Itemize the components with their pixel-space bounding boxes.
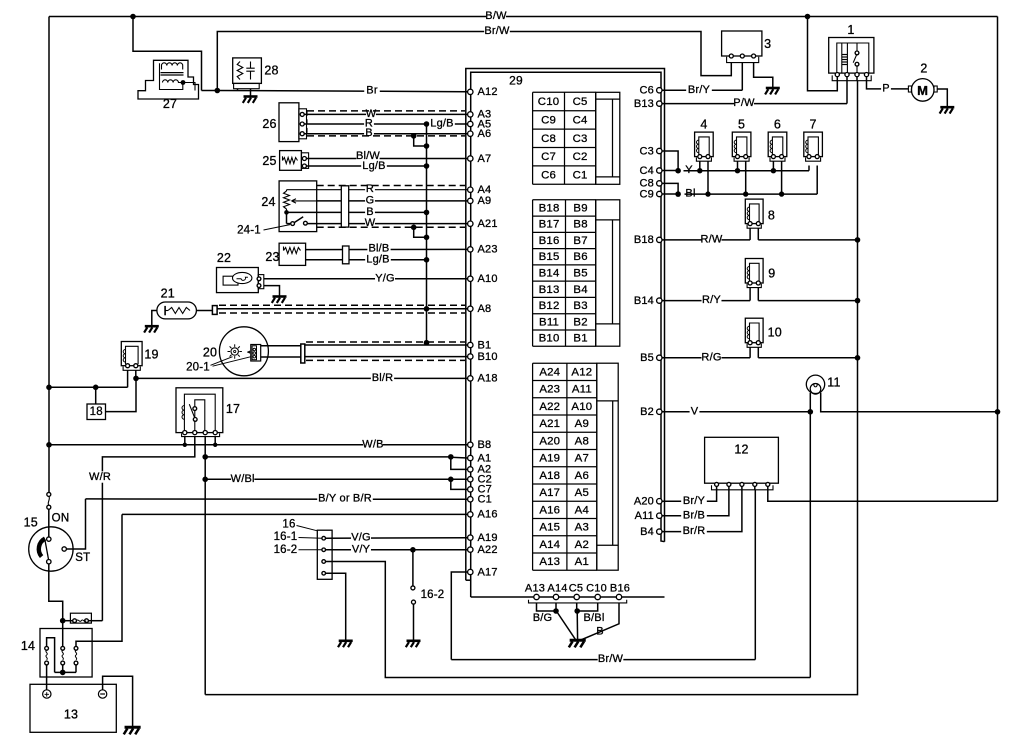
wire C5 down [576, 603, 578, 611]
solenoid/relay component 10 [745, 318, 763, 343]
wire injector 5 left pin to Y line [737, 161, 739, 170]
label P/W [734, 97, 754, 108]
node +B junction at A1/A2 line [202, 454, 208, 460]
label Y [684, 164, 694, 175]
wire B16 to ground diagonal [581, 603, 619, 640]
node shield tap on dashed below B [411, 133, 417, 139]
lamp 11 left leg down through V line [809, 393, 811, 678]
node bus junction at 24 B wire [424, 210, 430, 216]
svg-text:A12: A12 [571, 366, 592, 378]
relay 1 bracket [832, 75, 871, 80]
svg-text:24-1: 24-1 [237, 225, 261, 237]
node junction R/G on +B vertical [855, 355, 861, 361]
svg-text:A23: A23 [478, 244, 498, 256]
battery - terminal [98, 690, 106, 698]
ECU connector block 29 inner border [471, 72, 665, 597]
fusible link holder box [70, 613, 91, 623]
wire W/Bl line to C2 [205, 478, 467, 480]
wire battery - to ground [103, 676, 133, 727]
ECU bottom pin circles [534, 594, 539, 599]
lamp 11 outer circle [806, 375, 824, 393]
wire 17 pin4 to W/B [214, 437, 216, 445]
component 18 box [87, 404, 106, 420]
svg-text:C1: C1 [573, 170, 588, 182]
svg-text:13: 13 [64, 708, 78, 722]
node junction on top B/W line at x=133 [130, 14, 136, 20]
svg-text:P: P [882, 83, 890, 95]
wire R/W from ECU to component 8 [662, 239, 750, 241]
svg-text:B9: B9 [573, 202, 587, 214]
svg-text:26: 26 [262, 117, 276, 131]
wire right fuse bottom [75, 665, 77, 673]
component 12 bracket [712, 485, 774, 490]
component 21 capsule body [157, 302, 197, 319]
svg-text:A3: A3 [575, 522, 589, 534]
svg-text:A4: A4 [478, 184, 492, 196]
wire 17 pin1 to W/B [184, 437, 186, 445]
ECU table B shorting-bar column [596, 200, 620, 346]
wire B/W feed to relay 1 pin1 [808, 17, 838, 91]
svg-text:W/Bl: W/Bl [231, 473, 255, 485]
label Br/Y [686, 84, 712, 95]
svg-text:Br: Br [366, 85, 378, 97]
wire Br/W bottom line [451, 659, 755, 661]
label V/Y [351, 544, 371, 555]
relay 17 inner frame [184, 394, 215, 432]
wire comp12 pin5 to right border [768, 486, 998, 501]
svg-text:C4: C4 [640, 165, 654, 177]
lamp 11 right leg to right border [821, 393, 998, 412]
component 3 pins [729, 54, 733, 58]
wire right fuse top to A16 line [76, 514, 122, 646]
svg-text:11: 11 [827, 376, 840, 390]
wire V/G from 16 to A19 [326, 537, 468, 539]
wire comp3 mid pin to Br/Y [741, 63, 743, 91]
svg-text:ST: ST [75, 552, 90, 564]
svg-text:Lg/B: Lg/B [362, 160, 385, 172]
svg-text:C5: C5 [573, 96, 588, 108]
svg-text:B16: B16 [539, 235, 560, 247]
svg-text:27: 27 [163, 97, 177, 111]
node shield tap below W [411, 225, 417, 231]
wire Br/W top: from x=217 to comp 3 left pin [217, 32, 731, 91]
ignition coil 27 body [138, 60, 199, 99]
svg-text:A5: A5 [575, 487, 589, 499]
wire Bl/W from 25 to A7 [306, 158, 467, 160]
shield dashed above R wire of 24 [317, 185, 465, 187]
svg-text:C6: C6 [640, 85, 654, 97]
relay 17 switch contacts [193, 407, 197, 411]
inline connector circles on left border wire [47, 492, 51, 496]
ignition switch ST contact [62, 547, 66, 551]
svg-text:10: 10 [768, 326, 782, 340]
fuse elements in 14 [45, 646, 49, 650]
wire B/Y or B/R to C1 [86, 498, 468, 500]
shield dashed above B1 wire [306, 341, 465, 343]
relay 1 inner frame [837, 43, 869, 73]
component 24 wiper arrow [292, 199, 317, 203]
component 12 box [705, 437, 779, 483]
svg-text:Br/B: Br/B [683, 509, 705, 521]
node bus junction at 25 Lg/B [424, 163, 430, 169]
label W/R [90, 471, 110, 482]
wire Y line end up to injector 7 [808, 166, 810, 171]
svg-text:Lg/B: Lg/B [430, 118, 453, 130]
svg-text:B/Bl: B/Bl [584, 612, 605, 624]
svg-text:A21: A21 [478, 218, 498, 230]
label V/G [351, 532, 371, 543]
svg-text:21: 21 [161, 287, 175, 301]
node junction A1/A2 split [448, 454, 454, 460]
wire from B/W dot down to ignition coil 27 [133, 17, 202, 91]
component 22 box [217, 268, 259, 293]
label G [365, 195, 375, 206]
wire Lg/B from 23 to bus [306, 259, 427, 261]
node junction to component 18 [93, 385, 99, 391]
svg-text:W/R: W/R [89, 471, 111, 483]
component 3 bracket [727, 57, 759, 63]
svg-text:A20: A20 [539, 435, 560, 447]
svg-text:C3: C3 [640, 145, 654, 157]
wire A16 line [122, 513, 468, 515]
svg-text:25: 25 [262, 154, 276, 168]
wire 16 pin4 to ground [326, 573, 346, 640]
node bus junction at 26-shield drain [424, 143, 430, 149]
wire comp3 right pin to ground [754, 63, 773, 88]
ground under 21 [145, 325, 159, 328]
label B from 24 [365, 206, 375, 217]
wire component 10 to +B vertical [757, 347, 759, 358]
label W/Bl [231, 473, 254, 484]
ignition coil 27 primary winding [162, 63, 167, 66]
fusible link contacts [73, 619, 77, 623]
svg-text:5: 5 [738, 117, 745, 131]
wire ST to B/Y-or-B/R line [66, 499, 85, 549]
wire down to 16-2 switch [412, 550, 414, 586]
node junction 19/18 on Bl/R [133, 376, 139, 382]
ground ECU bottom [570, 639, 586, 642]
svg-text:16-1: 16-1 [274, 531, 298, 543]
ground comp3 [766, 87, 780, 90]
svg-text:B7: B7 [573, 235, 587, 247]
svg-text:Br/R: Br/R [683, 525, 706, 537]
wire C10 to join [577, 603, 598, 611]
wire injector 5 right pin to Bl line [745, 161, 747, 194]
svg-text:Br/Y: Br/Y [683, 495, 706, 507]
noise suppressor 28 box [233, 58, 262, 84]
node junction bottom bus [60, 670, 66, 676]
label Bl/B [367, 243, 390, 254]
component 21 internal resistor [168, 308, 190, 314]
wire bottom +B loop [205, 81, 857, 695]
ECU right pin circles and labels [657, 88, 662, 93]
component 24-1 switch contacts [286, 212, 288, 223]
svg-text:A2: A2 [575, 539, 589, 551]
svg-text:8: 8 [768, 209, 775, 223]
svg-text:B13: B13 [539, 284, 560, 296]
wire Y line from C3/C4 [662, 151, 678, 171]
wire W/B from left border to B8 [49, 444, 468, 446]
svg-text:A22: A22 [539, 401, 560, 413]
svg-text:B6: B6 [573, 251, 587, 263]
wire dot to fusible link [63, 620, 73, 622]
solenoid/relay component 9 [745, 259, 763, 284]
node coil 27 secondary junction [181, 80, 186, 85]
wire to A1 [451, 456, 468, 459]
ground under 16-2 [407, 639, 421, 642]
ECU table A shorting-bar column [597, 363, 618, 570]
node bus junction at 24 shield drain [424, 235, 430, 241]
svg-text:+: + [44, 689, 49, 699]
ignition coil 27 inner case [160, 63, 183, 89]
label P [881, 83, 891, 94]
wire coil 27 output to node at x=217 [202, 90, 218, 92]
svg-text:A12: A12 [478, 86, 498, 98]
wire left border vertical [48, 17, 50, 493]
wire 20 upper to connector [261, 345, 301, 347]
wire 28 left leg to Br node wire [237, 89, 239, 91]
connector 16 pins [322, 536, 326, 540]
svg-text:16: 16 [282, 519, 295, 531]
svg-text:A6: A6 [575, 470, 589, 482]
wire common contact down to relay block 14 [49, 564, 63, 621]
svg-text:R/W: R/W [701, 234, 723, 246]
wire V from B2 [662, 411, 810, 413]
relay 17 bracket [182, 433, 220, 436]
svg-text:1: 1 [847, 23, 854, 37]
component 14 outer box [40, 629, 92, 678]
svg-text:B13: B13 [634, 98, 654, 110]
svg-text:R/G: R/G [701, 351, 721, 363]
wire 21 to ECU pin A8 [217, 308, 468, 310]
svg-text:C10: C10 [538, 96, 560, 108]
inline connector on 24 wires [341, 186, 348, 227]
wire 16-2 to ground [413, 604, 415, 640]
wire left fuse bottom to battery + [46, 665, 48, 690]
svg-text:9: 9 [768, 267, 775, 281]
wire mid fuse bottom [62, 665, 64, 673]
svg-text:C7: C7 [541, 151, 556, 163]
label Bl [684, 188, 697, 199]
wire left fuse hook and inner vertical [47, 638, 55, 673]
wire W from switch to box edge [307, 223, 316, 225]
svg-text:20: 20 [203, 346, 217, 360]
wire A13/A14 to ground diagonal [556, 611, 576, 641]
component 25 box [280, 151, 302, 171]
wire 17 pin2 to W/R vertical [102, 437, 194, 621]
distributor 20 reluctor star [231, 348, 238, 355]
ignition switch common contact [47, 560, 51, 564]
svg-text:A11: A11 [572, 384, 592, 396]
svg-text:V: V [691, 405, 699, 417]
relay 1 outer box [829, 38, 874, 74]
battery 13 box [30, 684, 116, 732]
component 3 box [722, 31, 762, 56]
wire A17 to Br/W bottom line [451, 572, 467, 660]
component 26 connector stub [299, 109, 307, 139]
wire comp12 pin3 to B4 Br/R [662, 486, 742, 531]
node +B junction at W/Bl line [202, 477, 208, 483]
component 26 box [279, 103, 299, 142]
node junction R/W on +B vertical [855, 237, 861, 243]
solenoid/relay component 8 [745, 199, 763, 224]
label Lg/B from 23 [365, 254, 391, 265]
svg-text:A20: A20 [634, 496, 654, 508]
wire V/Y from 16 to A22 [326, 549, 468, 551]
ECU internal pin table B [533, 199, 596, 201]
svg-text:A10: A10 [571, 401, 592, 413]
svg-text:2: 2 [920, 62, 927, 76]
lamp 11 filament [810, 384, 821, 395]
relay 1 coil hatch [842, 54, 848, 56]
label B/Y or B/R [317, 493, 373, 504]
ignition coil 27 core lines [161, 72, 184, 74]
wire relay 1 pin2 to P/W [846, 77, 848, 104]
wire B from 26 to A6 [304, 133, 467, 135]
label Lg/B from 25 [361, 160, 387, 171]
shield dashed left vertical for 26 [306, 111, 308, 136]
wire step to A2 [451, 457, 468, 470]
wire B tap inside 24 [284, 210, 289, 215]
label R on wire [364, 118, 374, 129]
wire bottom bus of 14 [55, 671, 76, 673]
svg-text:B18: B18 [634, 234, 654, 246]
component 22 connector stub [258, 275, 264, 289]
svg-text:B4: B4 [573, 284, 587, 296]
distributor 20 circle [219, 327, 268, 376]
component 22 ellipse element [233, 272, 252, 283]
wire Lg/B from 25 to bus [306, 165, 426, 167]
svg-text:Bl/R: Bl/R [372, 372, 394, 384]
label Y/G [375, 273, 395, 284]
node junction on top B/W line at x=807.5 [805, 14, 811, 20]
wire injector 6 right pin to Bl line [781, 161, 783, 194]
svg-text:B14: B14 [539, 268, 560, 280]
svg-text:C4: C4 [573, 114, 588, 126]
svg-text:A11: A11 [635, 510, 654, 522]
noise suppressor 28 base [234, 83, 260, 88]
ignition coil 27 secondary winding [163, 80, 168, 83]
shield dashed above A8 wire [219, 304, 465, 306]
ignition switch lever [39, 539, 45, 557]
wire down to ON contact [48, 509, 50, 537]
svg-text:B/Y or B/R: B/Y or B/R [318, 492, 372, 504]
label W/B [363, 439, 383, 450]
svg-text:16-2: 16-2 [421, 589, 445, 601]
wire B from 24 to Lg/B bus [317, 211, 427, 213]
svg-text:A9: A9 [575, 418, 589, 430]
wire shield drain hook of 24 to bus [414, 227, 427, 237]
injector 4 [695, 132, 714, 157]
svg-text:B8: B8 [573, 219, 587, 231]
node junction W/Bl split to C7 [448, 477, 454, 483]
wire component 9 to +B vertical [757, 288, 759, 301]
wire Bl/B from 23 to A23 [306, 248, 468, 250]
label Br/R [681, 525, 707, 536]
svg-text:B3: B3 [573, 300, 587, 312]
svg-text:B/G: B/G [533, 612, 553, 624]
component 24 box [279, 181, 317, 232]
relay 17 pins [183, 431, 187, 435]
component 24 potentiometer resistor [284, 191, 290, 209]
svg-text:B4: B4 [640, 526, 654, 538]
wire fusible link to W/R vertical [88, 620, 102, 622]
svg-text:A24: A24 [539, 366, 560, 378]
svg-text:ON: ON [52, 513, 70, 525]
component 12 pins [715, 482, 719, 486]
inline connector on 23 wires [343, 246, 350, 264]
wire Bl/R from 19/18 to A18 [136, 377, 468, 379]
wire Br/Y from C6 [662, 89, 742, 91]
label V [690, 406, 700, 417]
wire A1/A2 feed line [205, 456, 451, 458]
svg-text:C5: C5 [569, 582, 583, 594]
svg-text:V/Y: V/Y [352, 543, 371, 555]
wire Bl line end up to injector 7 right pin [816, 166, 818, 195]
node junction left border W/B [46, 442, 52, 448]
label B on wire [364, 127, 374, 138]
svg-text:14: 14 [21, 639, 35, 653]
svg-text:B/W: B/W [485, 10, 507, 22]
svg-text:18: 18 [90, 406, 103, 418]
node junction at fusible link feed [60, 618, 66, 624]
node junction on left border at 387 [46, 385, 52, 391]
node bus junction at 23 Lg/B [424, 257, 430, 263]
wire component 8 to +B vertical [757, 228, 759, 240]
ground battery [125, 726, 141, 729]
svg-text:A14: A14 [539, 539, 560, 551]
ECU bottom edge [471, 596, 665, 598]
svg-text:C10: C10 [586, 582, 607, 594]
wire 20 to ECU pin B10 [305, 356, 468, 358]
svg-text:A18: A18 [539, 470, 560, 482]
ECU internal pin table C [533, 91, 596, 93]
label R/G [702, 352, 722, 363]
wire 20 lower to connector [261, 356, 301, 358]
16-2 inline connector circles [411, 586, 415, 590]
wire right border vertical (B/W down to comp 12 pin 5) [997, 17, 999, 502]
svg-text:Br/W: Br/W [598, 653, 624, 665]
svg-text:A15: A15 [539, 522, 560, 534]
svg-text:A1: A1 [575, 556, 589, 568]
component 22 inner rect [223, 276, 238, 285]
svg-text:P/W: P/W [733, 97, 755, 109]
node junction C5/C10 [574, 608, 580, 614]
component 25 connector stub [301, 153, 308, 169]
svg-text:22: 22 [217, 251, 231, 265]
svg-text:B17: B17 [539, 219, 560, 231]
inline connector on 20 wires [301, 344, 305, 363]
label Br/W top [484, 25, 510, 36]
svg-text:B8: B8 [478, 439, 492, 451]
relay 17 outer box [176, 388, 223, 433]
svg-text:Y/G: Y/G [375, 272, 395, 284]
component 21 internal bar [164, 306, 166, 315]
wire 17 pin3 down to +B node [204, 437, 206, 695]
svg-text:C2: C2 [573, 151, 588, 163]
svg-text:B: B [365, 127, 373, 139]
svg-text:4: 4 [700, 117, 707, 131]
wire 28 right leg to ground [250, 89, 252, 97]
svg-text:28: 28 [264, 64, 278, 78]
injector 6 [768, 132, 787, 157]
label Br [364, 85, 380, 96]
node junction A13/A14 [553, 608, 559, 614]
svg-text:B: B [366, 206, 374, 218]
node bus junction on A8 wire [424, 306, 430, 312]
motor 2 left terminal [908, 86, 911, 92]
wire Br from node to ECU pin A12 [217, 91, 467, 92]
